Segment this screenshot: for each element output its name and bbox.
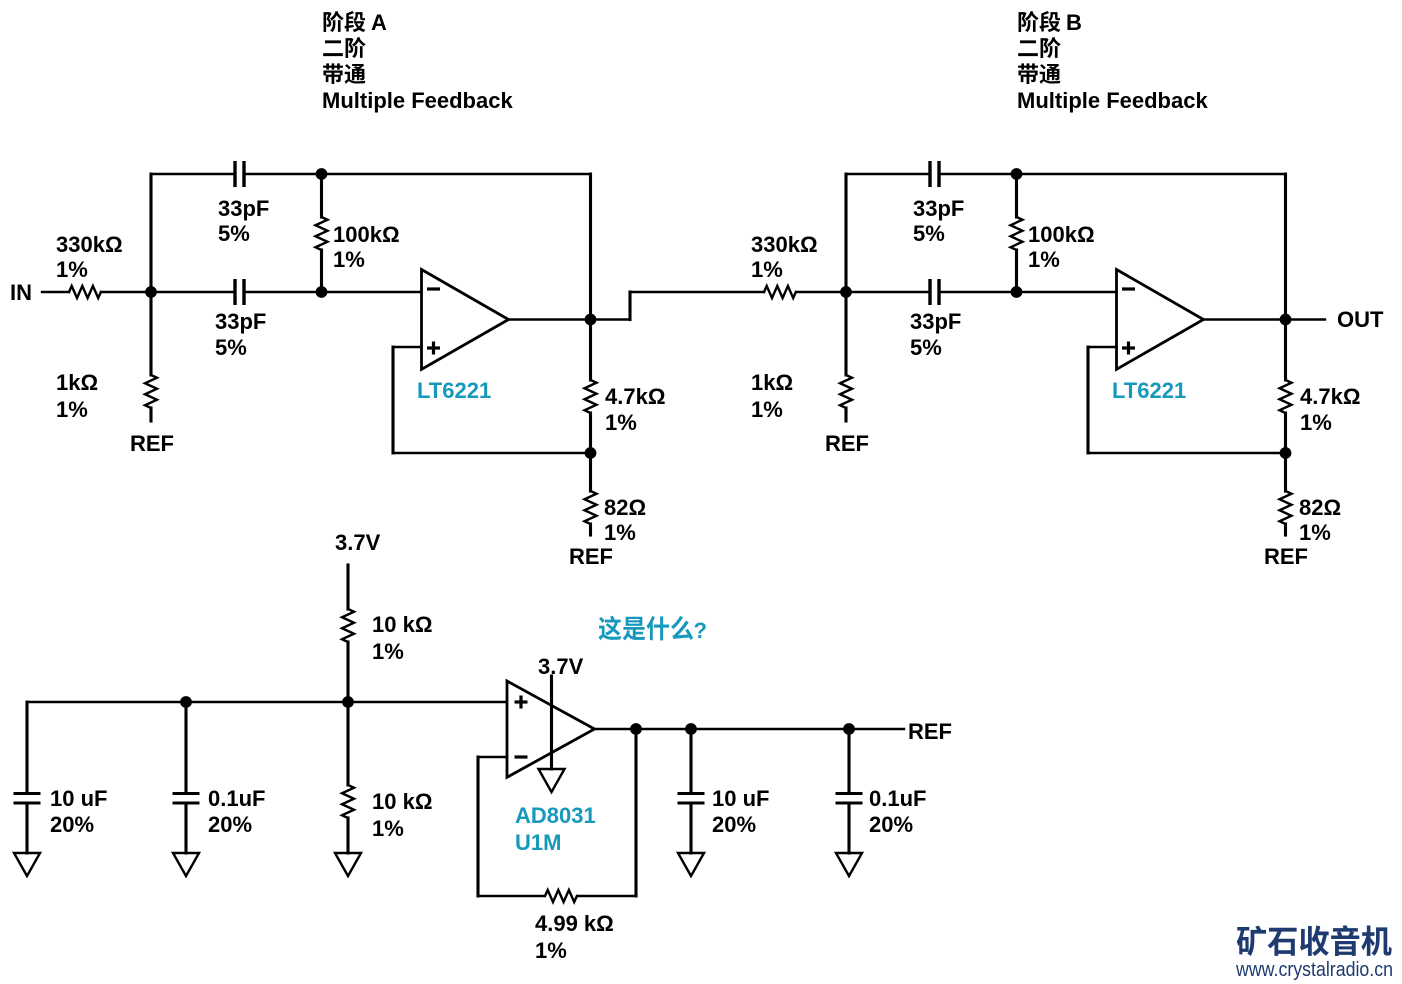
wire top right stage B: [941, 173, 1286, 175]
wire 1k stub stage A: [149, 408, 152, 421]
wire cap1 stem: [25, 702, 28, 792]
svg-text:A: A: [371, 10, 387, 35]
capacitor C 0.1uF right: [836, 792, 863, 795]
node divider junction: [342, 696, 354, 708]
wire to 4.7k stage A: [589, 320, 592, 381]
node cap4 junction: [843, 723, 855, 735]
ground cap4: [836, 853, 862, 876]
svg-text:LT6221: LT6221: [1112, 378, 1186, 403]
node cap2 junction: [180, 696, 192, 708]
svg-text:REF: REF: [569, 544, 613, 569]
svg-text:1%: 1%: [56, 397, 88, 422]
svg-text:33pF: 33pF: [913, 196, 964, 221]
capacitor C 10uF left: [14, 792, 41, 795]
wire top left stage A: [151, 173, 233, 175]
svg-text:3.7V: 3.7V: [538, 654, 584, 679]
wire 4.7k to node stage B: [1284, 413, 1287, 453]
ground 10k lower: [335, 853, 361, 876]
node input junction stage A: [145, 286, 157, 298]
svg-text:LT6221: LT6221: [417, 378, 491, 403]
svg-text:1%: 1%: [333, 247, 365, 272]
resistor R 1k stage A: [145, 375, 157, 408]
svg-text:4.7kΩ: 4.7kΩ: [1300, 384, 1360, 409]
wire cap3 to gnd: [689, 805, 692, 853]
svg-text:1kΩ: 1kΩ: [56, 370, 98, 395]
wire cap3 stem: [689, 729, 692, 792]
svg-text:0.1uF: 0.1uF: [208, 786, 265, 811]
svg-text:AD8031: AD8031: [515, 803, 596, 828]
svg-text:330kΩ: 330kΩ: [56, 232, 123, 257]
svg-text:10 uF: 10 uF: [712, 786, 769, 811]
svg-text:82Ω: 82Ω: [1299, 495, 1341, 520]
capacitor C 0.1uF left: [173, 792, 200, 795]
svg-text:1%: 1%: [372, 639, 404, 664]
svg-text:5%: 5%: [910, 335, 942, 360]
svg-text:10 kΩ: 10 kΩ: [372, 789, 432, 814]
svg-text:IN: IN: [10, 280, 32, 305]
capacitor C 33pF top stage B: [928, 161, 931, 187]
wire 100k top stage A: [320, 174, 323, 217]
svg-text:REF: REF: [130, 431, 174, 456]
wire 100k top stage B: [1015, 174, 1018, 217]
wire cap1 to gnd: [25, 805, 28, 853]
wire node to 10k lower: [346, 702, 349, 785]
wire cap4 to gnd: [847, 805, 850, 853]
svg-text:10 uF: 10 uF: [50, 786, 107, 811]
wire 82 stub stage B: [1284, 524, 1287, 535]
wire cap2 stem: [184, 702, 187, 792]
svg-text:1%: 1%: [56, 257, 88, 282]
capacitor C 33pF input stage B: [928, 279, 931, 305]
wire 1k stub stage B: [844, 408, 847, 421]
svg-text:1%: 1%: [751, 397, 783, 422]
op-amp LT6221 stage B: [1117, 270, 1204, 370]
svg-text:20%: 20%: [50, 812, 94, 837]
wire top left stage B: [846, 173, 928, 175]
title B line1 CJK 阶段: [1019, 11, 1061, 32]
capacitor C 10uF right: [678, 792, 705, 795]
wire feedback riser stage B: [1284, 174, 1287, 320]
svg-text:REF: REF: [1264, 544, 1308, 569]
wire opamp supply: [550, 676, 553, 769]
svg-text:1%: 1%: [372, 816, 404, 841]
title A line1 CJK 阶段: [324, 11, 366, 32]
wire cap to opamp stage A: [246, 291, 422, 293]
resistor R 330k stage A: [69, 286, 101, 298]
svg-text:U1M: U1M: [515, 830, 561, 855]
wire IN lead stage A: [42, 291, 69, 293]
resistor R 82 stage B: [1280, 491, 1292, 524]
resistor R 330k stage B: [764, 286, 796, 298]
op-amp AD8031 U1M: [507, 681, 595, 777]
ground opamp suppLy arrow: [539, 769, 565, 792]
wire 4.7k to node stage A: [589, 413, 592, 453]
svg-text:4.99 kΩ: 4.99 kΩ: [535, 911, 614, 936]
svg-text:?: ?: [694, 618, 707, 643]
node top 100k stage B: [1011, 168, 1023, 180]
node 4.7k 82 junction stage B: [1280, 447, 1292, 459]
node output stage A: [585, 314, 597, 326]
resistor R 100k stage A: [316, 217, 328, 250]
node input junction stage B: [840, 286, 852, 298]
label question CJK: [599, 616, 694, 641]
svg-text:1kΩ: 1kΩ: [751, 370, 793, 395]
wire 10k lower to gnd: [346, 818, 349, 853]
svg-text:1%: 1%: [751, 257, 783, 282]
svg-text:1%: 1%: [1028, 247, 1060, 272]
svg-text:www.crystalradio.cn: www.crystalradio.cn: [1235, 959, 1393, 981]
svg-text:5%: 5%: [215, 335, 247, 360]
svg-text:REF: REF: [825, 431, 869, 456]
node 4.7k 82 junction stage A: [585, 447, 597, 459]
svg-text:0.1uF: 0.1uF: [869, 786, 926, 811]
svg-text:10 kΩ: 10 kΩ: [372, 612, 432, 637]
svg-text:82Ω: 82Ω: [604, 495, 646, 520]
wire plus feedback stage A: [393, 346, 422, 348]
capacitor C 33pF top stage A: [233, 161, 236, 187]
svg-text:1%: 1%: [604, 520, 636, 545]
resistor R 4.7k stage B: [1280, 380, 1292, 413]
wire AD8031 feedback right: [578, 895, 636, 897]
wire cap2 to gnd: [184, 805, 187, 853]
wire 100k bottom stage A: [320, 250, 323, 292]
wire to 4.7k stage B: [1284, 320, 1287, 381]
wire riser stage B: [844, 174, 847, 292]
svg-text:20%: 20%: [869, 812, 913, 837]
title A line2 二阶: [323, 37, 365, 58]
svg-text:4.7kΩ: 4.7kΩ: [605, 384, 665, 409]
svg-text:20%: 20%: [208, 812, 252, 837]
svg-text:Multiple Feedback: Multiple Feedback: [1017, 88, 1208, 113]
svg-text:3.7V: 3.7V: [335, 530, 381, 555]
resistor R 4.99k: [545, 890, 577, 902]
svg-text:33pF: 33pF: [218, 196, 269, 221]
node top 100k stage A: [316, 168, 328, 180]
wire AD8031 feedback left: [478, 756, 507, 758]
wire 100k bottom stage B: [1015, 250, 1018, 292]
svg-text:5%: 5%: [913, 221, 945, 246]
svg-text:100kΩ: 100kΩ: [333, 222, 400, 247]
wire output stage B: [1204, 318, 1326, 320]
wire 330k to cap stage B: [796, 291, 928, 293]
title B line2 二阶: [1018, 37, 1060, 58]
svg-text:20%: 20%: [712, 812, 756, 837]
svg-text:OUT: OUT: [1337, 307, 1384, 332]
svg-text:100kΩ: 100kΩ: [1028, 222, 1095, 247]
wire to 1k stage B: [844, 292, 847, 375]
title A line3 带通: [323, 63, 365, 84]
resistor R 82 stage A: [585, 491, 597, 524]
svg-text:33pF: 33pF: [215, 309, 266, 334]
svg-text:REF: REF: [908, 719, 952, 744]
svg-text:33pF: 33pF: [910, 309, 961, 334]
wire stage A out step up to stage B input: [628, 292, 631, 320]
wire 82 stub stage A: [589, 524, 592, 535]
resistor R 10k upper: [342, 609, 354, 642]
node mid 100k stage A: [316, 286, 328, 298]
watermark logo 矿石收音机: [1237, 925, 1392, 956]
node output stage B: [1280, 314, 1292, 326]
node mid 100k stage B: [1011, 286, 1023, 298]
svg-text:5%: 5%: [218, 221, 250, 246]
title B line3 带通: [1018, 63, 1060, 84]
wire riser stage A: [149, 174, 152, 292]
wire reference rail: [27, 701, 507, 703]
wire output stage A: [509, 318, 631, 320]
svg-text:B: B: [1066, 10, 1082, 35]
wire 3.7V to 10k: [346, 565, 349, 609]
capacitor C 33pF input stage A: [233, 279, 236, 305]
svg-text:330kΩ: 330kΩ: [751, 232, 818, 257]
svg-text:1%: 1%: [1299, 520, 1331, 545]
resistor R 4.7k stage A: [585, 380, 597, 413]
wire plus feedback stage B: [1088, 346, 1117, 348]
wire to 82 stage B: [1284, 453, 1287, 491]
wire 330k to cap stage A: [101, 291, 233, 293]
wire to 82 stage A: [589, 453, 592, 491]
wire feedback riser stage A: [589, 174, 592, 320]
node cap3 junction: [685, 723, 697, 735]
wire 10k to node: [346, 642, 349, 702]
svg-text:Multiple Feedback: Multiple Feedback: [322, 88, 513, 113]
wire top right stage A: [246, 173, 591, 175]
ground cap2: [173, 853, 199, 876]
svg-text:1%: 1%: [1300, 410, 1332, 435]
wire cap4 stem: [847, 729, 850, 792]
svg-text:1%: 1%: [535, 938, 567, 963]
resistor R 10k lower: [342, 785, 354, 818]
resistor R 1k stage B: [840, 375, 852, 408]
wire REF output: [595, 728, 905, 730]
wire to 1k stage A: [149, 292, 152, 375]
resistor R 100k stage B: [1011, 217, 1023, 250]
ground cap1: [14, 853, 40, 876]
op-amp LT6221 stage A: [422, 270, 509, 370]
wire cap to opamp stage B: [941, 291, 1117, 293]
ground cap3: [678, 853, 704, 876]
svg-text:1%: 1%: [605, 410, 637, 435]
node feedback junction: [630, 723, 642, 735]
